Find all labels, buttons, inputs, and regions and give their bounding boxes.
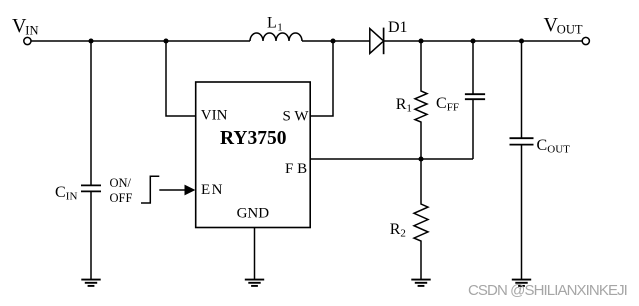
junction FB node [418,156,423,161]
svg-text:L: L [267,15,277,32]
svg-text:D1: D1 [388,19,408,36]
wire L1 to D1 [302,40,370,42]
svg-text:ON/: ON/ [110,176,132,190]
ground GND pin [245,280,264,286]
svg-text:VIN: VIN [201,108,228,124]
label R1 [396,96,412,115]
label COUT [537,137,571,156]
junction CFF tap [470,38,475,43]
svg-text:C: C [537,137,548,154]
capacitor CIN [81,41,101,279]
label ON/OFF [110,176,133,205]
svg-text:1: 1 [406,103,412,115]
step waveform symbol [141,176,159,203]
svg-text:GND: GND [237,205,270,221]
junction VIN tap [163,38,168,43]
label VOUT [544,14,583,37]
svg-text:IN: IN [66,191,78,203]
wire D1 to VOUT [384,40,583,42]
IC U1 RY3750 [196,82,311,228]
resistor R1 [415,41,427,159]
svg-text:C: C [436,95,447,112]
label CFF [436,95,459,114]
svg-text:R: R [390,221,401,238]
ground COUT [512,280,531,286]
svg-text:FF: FF [447,102,459,114]
inductor L1 [250,33,302,41]
wire SW pin [310,41,333,116]
resistor R2 [414,159,428,279]
junction CIN tap [88,38,93,43]
terminal VIN [24,37,31,44]
capacitor COUT [510,41,534,279]
wire FB net [310,158,473,160]
label CIN [55,184,77,203]
svg-text:RY3750: RY3750 [220,128,286,149]
svg-text:1: 1 [277,22,283,34]
svg-text:R: R [396,96,407,113]
diode D1 [370,28,384,55]
label VIN [12,15,39,38]
wire input rail [31,40,250,42]
label R2 [390,221,406,240]
svg-text:OUT: OUT [557,22,583,36]
svg-text:IN: IN [25,24,38,38]
ground CIN [81,280,100,286]
svg-text:EN: EN [201,182,224,198]
svg-text:OUT: OUT [547,144,570,156]
EN arrow wire [159,185,195,196]
ground R2 [411,280,430,286]
capacitor CFF [465,41,485,159]
label L1 [267,15,283,34]
svg-text:OFF: OFF [110,191,133,205]
svg-text:2: 2 [400,228,406,240]
svg-text:CSDN @SHILIANXINKEJI: CSDN @SHILIANXINKEJI [468,282,627,299]
junction COUT tap [519,38,524,43]
junction R1 tap [418,38,423,43]
terminal VOUT [582,37,589,44]
svg-text:C: C [55,184,66,201]
svg-text:S W: S W [283,108,310,124]
svg-text:F B: F B [285,161,307,177]
junction SW node [330,38,335,43]
wire VIN pin [166,41,196,116]
wire GND pin [254,228,256,280]
